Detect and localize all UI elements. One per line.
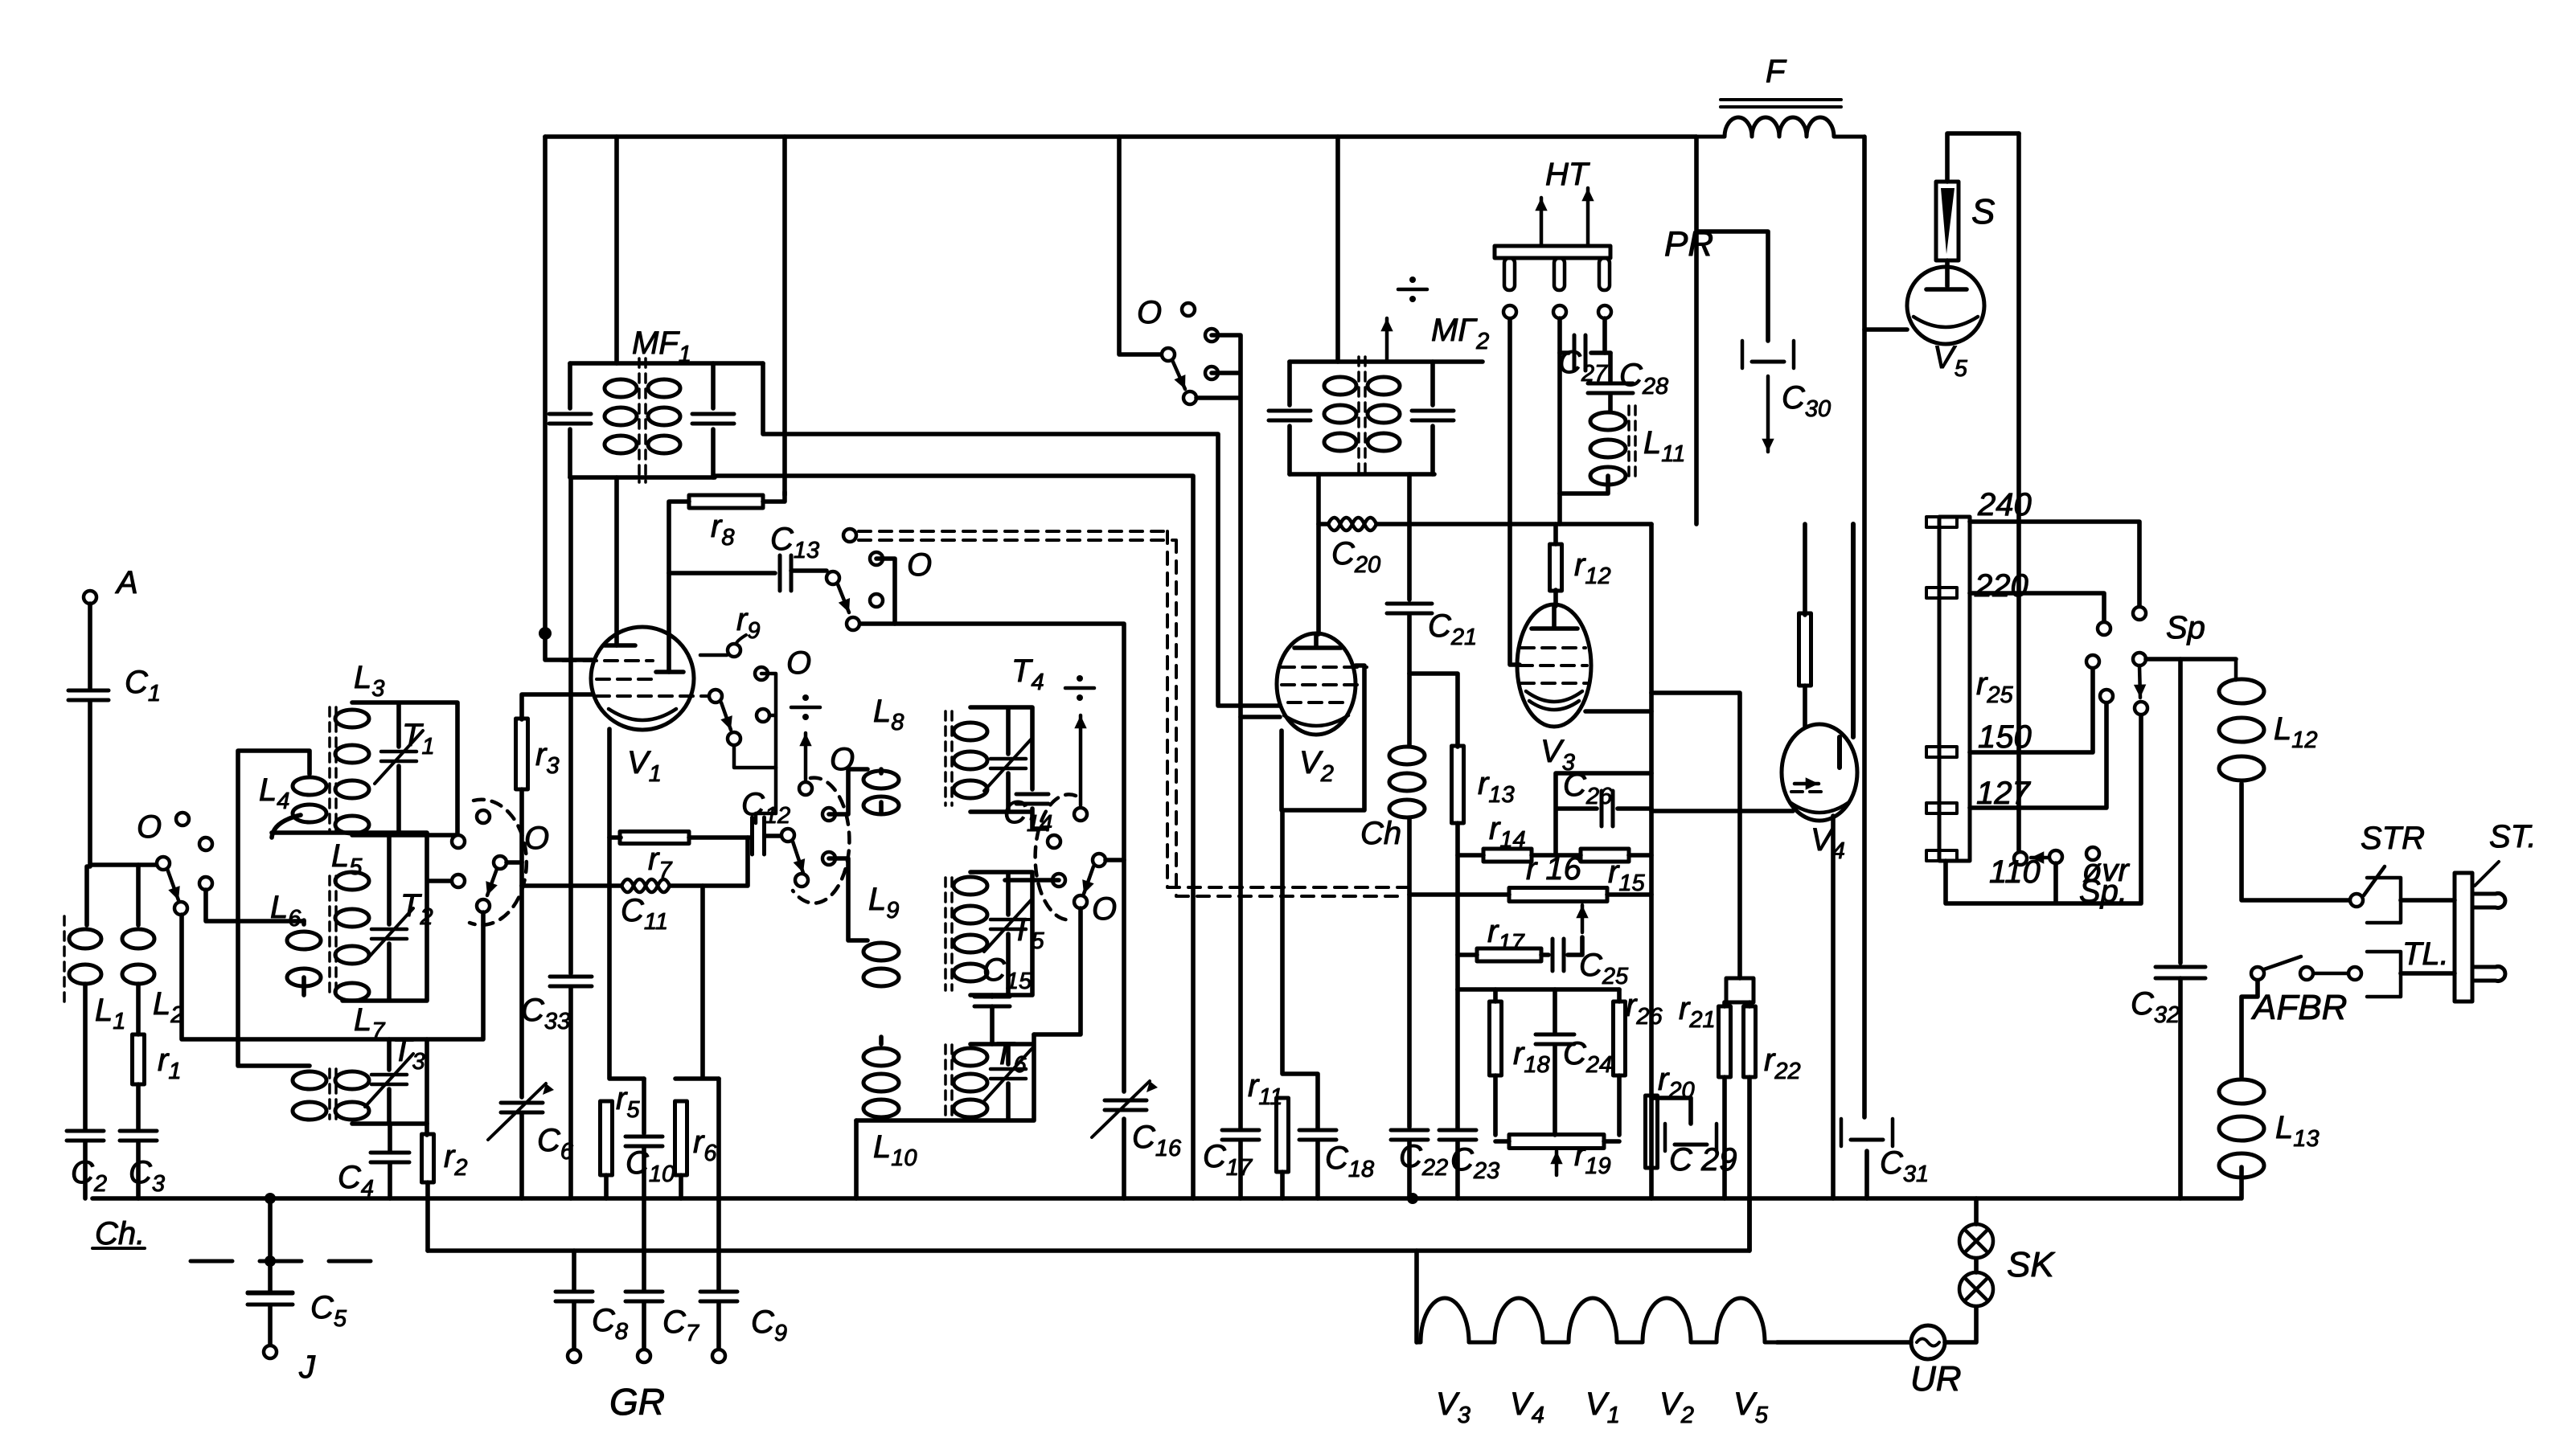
svg-text:STR: STR	[2361, 821, 2425, 856]
trimmer T2	[371, 928, 407, 932]
resistor r26	[1614, 1001, 1626, 1075]
grid cap r9 terminal	[728, 644, 740, 657]
tube V3 cathode arc	[1526, 691, 1582, 710]
transformer core L8	[944, 711, 947, 805]
wire tap 220	[1970, 593, 2104, 622]
resistor r7	[620, 832, 689, 844]
wire C32 line	[2178, 659, 2183, 963]
capacitor C26 box	[1556, 773, 1651, 855]
svg-text:UR: UR	[1910, 1359, 1962, 1399]
capacitor C25	[1551, 939, 1555, 971]
wire V3 cathode to r21 rail	[1585, 693, 1740, 978]
terminal ovr spare	[2086, 847, 2099, 860]
wire V3 grid from PR	[1510, 318, 1520, 665]
wire r8 right to screen line	[763, 492, 785, 502]
wire C21 to choke node	[1407, 616, 1412, 674]
fuse S	[1936, 182, 1959, 260]
wire MF1 left to C33	[568, 477, 573, 973]
svg-text:S: S	[1971, 192, 1995, 231]
transformer core L9	[944, 878, 947, 990]
transformer F lamination lines	[1721, 100, 1841, 107]
chassis dashed line	[191, 1260, 376, 1264]
wire left vertical from top bus to V1 grid	[545, 137, 593, 660]
wire C9 line	[716, 1079, 721, 1289]
ballast UR	[1911, 1325, 1945, 1359]
resistor r16 wire	[1607, 892, 1651, 897]
wire TL to plug	[2401, 971, 2455, 976]
svg-text:150: 150	[1978, 719, 2032, 755]
wire switch left contact	[1005, 878, 1059, 883]
inductor L9 secondary	[954, 877, 987, 895]
transformer core T3	[328, 1069, 331, 1119]
wire L10 to ground	[856, 1037, 881, 1198]
wire V4 grid stub	[1651, 809, 1793, 813]
resistor r7 wire	[609, 835, 752, 840]
wire MF1 primary feed	[614, 137, 619, 363]
svg-text:240: 240	[1977, 487, 2032, 522]
svg-text:127: 127	[1976, 776, 2031, 811]
svg-text:C 29: C 29	[1669, 1142, 1737, 1178]
wire heater feed	[1414, 1251, 1419, 1342]
capacitor C26	[1600, 791, 1604, 826]
switch TL bracket	[2367, 952, 2401, 997]
inductor L13	[2219, 1079, 2264, 1104]
wire C5 to J	[268, 1305, 273, 1346]
wire C13 switch bracket	[876, 559, 895, 624]
resistor r23	[1799, 613, 1811, 686]
capacitor C20 coupling squiggle	[1328, 518, 1376, 530]
inductor MF1 secondary coil	[648, 379, 680, 397]
tube V1 anode bar	[605, 643, 635, 648]
wire L7 tap from antenna switch	[182, 912, 483, 1039]
capacitor C9	[700, 1290, 737, 1294]
wire osc switch bracket to V2	[1196, 335, 1280, 717]
wire L11 bottom	[1560, 476, 1608, 494]
wire tap 240	[1970, 522, 2139, 607]
svg-text:O: O	[1092, 891, 1117, 927]
terminal AVC line	[843, 529, 856, 542]
tube V2 envelope	[1277, 633, 1356, 735]
inductor L8 secondary	[954, 723, 987, 740]
resistor r12 wire	[1553, 524, 1558, 606]
capacitor C1	[68, 689, 109, 693]
capacitor C4	[371, 1151, 409, 1155]
wire switch pivot to osc line	[1105, 858, 1124, 862]
wire S to V5	[1947, 133, 2019, 286]
resistor r5	[601, 1101, 613, 1175]
arrow HT right	[1586, 188, 1590, 246]
tube V1 grids	[563, 659, 653, 662]
tap 240	[1926, 517, 1957, 527]
wire r5 to ground	[604, 1175, 609, 1198]
wire heater to UR	[1777, 1340, 1911, 1345]
wire C5 from bus	[268, 1198, 273, 1291]
terminal GR C8	[568, 1350, 580, 1362]
wire C3 to ground bus	[136, 1141, 141, 1198]
svg-text:Sp: Sp	[2166, 610, 2205, 645]
wire switch arm to L6	[206, 890, 304, 921]
wire AVC dashed bus	[859, 531, 1409, 887]
plug ST prong top	[2472, 894, 2505, 908]
wire L13 to ground bus	[2239, 1167, 2244, 1198]
svg-text:J: J	[298, 1350, 316, 1385]
wire C7 to terminal	[642, 1303, 646, 1350]
tuned box L8-T4	[970, 707, 1047, 829]
inductor L4	[293, 777, 326, 795]
wire C2 to ground bus	[83, 1141, 88, 1198]
tube V4 anode bar	[1840, 524, 1853, 768]
wire r3 down to C11 node	[519, 789, 524, 886]
capacitor MF2 secondary	[1430, 362, 1435, 474]
resistor r18 wire	[1493, 989, 1498, 1135]
lamp SK lower	[1959, 1272, 1993, 1306]
capacitor C22	[1391, 1128, 1428, 1133]
switch O band selector right	[1048, 835, 1060, 848]
ground arrow band switch	[1079, 715, 1083, 805]
wire L2 top	[136, 865, 141, 925]
wire C17 to ground	[1238, 1141, 1243, 1198]
wire C11 line	[522, 838, 748, 886]
svg-text:F: F	[1766, 54, 1787, 89]
divide symbol MF2	[1398, 288, 1427, 292]
switch O antenna selector	[157, 857, 170, 870]
wire C33 to ground	[568, 988, 573, 1198]
capacitor MF2 primary	[1287, 362, 1292, 474]
inductor L3	[335, 710, 369, 727]
inductor L5	[335, 872, 369, 890]
svg-text:Sp.: Sp.	[2079, 874, 2127, 909]
wire MF1 primary to V1 anode	[614, 477, 619, 645]
wire V1 cathode down to r5 bracket	[609, 729, 644, 1079]
ground arrow above switch	[804, 733, 808, 780]
tuned box L9-T5	[970, 872, 1032, 995]
tube V3 envelope	[1517, 604, 1591, 727]
svg-text:O: O	[907, 547, 932, 583]
plug ST prong bottom	[2472, 967, 2505, 981]
inductor F primary coil	[1696, 117, 1864, 137]
wire A to C1	[88, 604, 92, 688]
arrow r16 wiper	[1581, 905, 1585, 932]
resistor r20	[1646, 1096, 1658, 1168]
tube V5 envelope	[1907, 267, 1984, 344]
terminal A antenna	[84, 591, 96, 604]
transformer core MF2	[1357, 357, 1360, 479]
switch O oscillator injection	[781, 829, 794, 842]
transformer MF1 box	[570, 363, 763, 477]
tap 150	[1926, 747, 1957, 757]
wire L2 to r1	[136, 984, 141, 1034]
tube V4 envelope	[1782, 724, 1857, 821]
terminal PR mid	[1553, 305, 1566, 318]
wire V4 cathode to ground	[1831, 816, 1836, 1198]
svg-text:PR: PR	[1664, 224, 1713, 264]
tap bottom	[1926, 850, 1957, 861]
wire screen feed to r8	[782, 137, 787, 495]
wire r13 top link	[1412, 674, 1458, 747]
trimmer T5	[991, 918, 1026, 922]
resistor r21	[1719, 1006, 1731, 1077]
divide symbol band switch	[1065, 686, 1094, 690]
arrow HT left	[1540, 198, 1544, 246]
wire r11 to ground	[1280, 1172, 1285, 1198]
svg-text:SK: SK	[2007, 1245, 2055, 1284]
switch Sp arm	[2133, 653, 2146, 666]
wire MF2 primary feed	[1335, 137, 1340, 362]
wire C12 to switch	[765, 834, 781, 838]
wire V5 to selector rail	[2016, 133, 2021, 850]
wire C9 to terminal	[716, 1303, 721, 1350]
terminal GR C7	[638, 1350, 650, 1362]
wire between lamps	[1974, 1259, 1979, 1272]
capacitor C27 wire	[1560, 350, 1610, 355]
tube V5 anode bar	[1926, 287, 1967, 292]
wire C27 to C28	[1608, 353, 1613, 381]
wire bias bracket	[1458, 987, 1619, 992]
svg-text:Ch.: Ch.	[95, 1216, 145, 1251]
resistor r14	[1483, 849, 1532, 862]
capacitor C2	[67, 1129, 104, 1133]
capacitor C5	[248, 1292, 293, 1296]
switch O wave band selector left	[477, 810, 490, 823]
transformer core T1	[328, 707, 331, 832]
wire MF2 to V2 plate	[1316, 474, 1321, 634]
svg-text:Ch: Ch	[1360, 816, 1401, 851]
variable capacitor C16	[1105, 1099, 1146, 1103]
divide symbol above switch	[791, 706, 820, 710]
tube V4 cathode arc	[1790, 802, 1849, 813]
svg-text:A: A	[115, 565, 138, 600]
tube V2 grids	[1282, 666, 1367, 669]
wire C30 rail	[1694, 137, 1699, 524]
capacitor C15 wire	[990, 995, 995, 1044]
tube V4 grid	[1791, 790, 1827, 793]
trimmer T4	[991, 757, 1026, 761]
inductor L7 secondary	[335, 1071, 369, 1089]
switch grid pivot	[709, 690, 722, 702]
wire lamp to ground bus	[1974, 1198, 1979, 1224]
variable capacitor C6	[501, 1101, 543, 1105]
capacitor C29	[1665, 1124, 1717, 1151]
wire PR mid down to anode rail	[1557, 318, 1562, 524]
wire r1 to C3	[136, 1084, 141, 1129]
capacitor C30 wire	[1696, 231, 1768, 341]
capacitor C14	[1016, 793, 1048, 797]
wire C31 to ground	[1864, 1151, 1869, 1198]
svg-text:O: O	[1137, 295, 1162, 330]
resistor r16 potentiometer	[1509, 888, 1607, 902]
capacitor C31	[1841, 1119, 1893, 1146]
wire C10 through buses to C7	[642, 1147, 646, 1289]
inductor Ch choke	[1407, 674, 1412, 745]
wire tap 150	[1970, 668, 2093, 752]
capacitor C30	[1742, 341, 1794, 368]
capacitor C29 wire	[1651, 1098, 1691, 1124]
capacitor C23 wire	[1455, 989, 1460, 1128]
inductor L12	[2219, 679, 2264, 703]
svg-text:GR: GR	[609, 1381, 665, 1423]
svg-text:O: O	[524, 821, 549, 856]
transformer core MF1	[638, 358, 641, 482]
resistor r2	[422, 1134, 434, 1182]
resistor r13	[1452, 746, 1464, 823]
plug PR bar	[1495, 246, 1610, 258]
lamp SK upper	[1959, 1224, 1993, 1258]
arrow C30 discharge	[1766, 376, 1770, 452]
capacitor C24	[1536, 1033, 1574, 1037]
resistor r11	[1277, 1098, 1289, 1172]
wire L1 top	[87, 866, 90, 925]
wire r6 to ground	[679, 1175, 683, 1198]
resistor r1	[133, 1034, 145, 1084]
wire AFBR to L13	[2242, 981, 2258, 1077]
wire choke to C22	[1407, 818, 1412, 1127]
tube V1 cathode arc	[609, 709, 676, 720]
wire V5 feed from F rail	[1864, 327, 1907, 332]
tuned circuit box L5-T2	[272, 833, 452, 1001]
tube V3 grids	[1521, 646, 1585, 649]
svg-text:O: O	[137, 809, 162, 845]
resistor r25 tapped body	[1939, 517, 1970, 861]
transformer MF2 box	[1290, 362, 1483, 474]
svg-text:r 16: r 16	[1526, 851, 1582, 887]
wire heater return bus	[428, 1198, 1749, 1251]
wire oscillator line through C16 to ground	[853, 624, 1124, 1198]
svg-text:O: O	[830, 742, 855, 777]
svg-text:AFBR: AFBR	[2250, 988, 2347, 1027]
terminal PR right	[1598, 305, 1611, 318]
capacitor C13	[778, 555, 782, 591]
terminal 110	[2014, 852, 2027, 865]
tube V2 cathode arc	[1284, 715, 1348, 726]
wire C18 to ground	[1315, 1141, 1320, 1198]
capacitor C17	[1222, 1128, 1259, 1133]
switch arm 110	[2049, 850, 2062, 863]
capacitor MF1 secondary	[711, 363, 716, 477]
wire r13 to r14 line and r17	[1455, 823, 1460, 989]
wire tap 127	[1970, 702, 2106, 808]
inductor L10 primary	[863, 1048, 899, 1066]
resistor r21 r22 top box	[1726, 978, 1754, 1002]
capacitor C12	[750, 817, 754, 854]
ground arrow MF2	[1385, 318, 1389, 360]
inductor MF2 primary coil	[1324, 377, 1356, 395]
wire anode line to r23	[1803, 524, 1807, 615]
wire oscillator switch feed	[1119, 137, 1162, 354]
wire C6 to ground	[519, 1113, 524, 1198]
capacitor MF1 primary	[568, 363, 572, 477]
svg-text:220: 220	[1974, 568, 2028, 604]
svg-text:HT: HT	[1545, 157, 1590, 192]
wire L7 to C4	[388, 1124, 392, 1151]
wire C13 to switch	[791, 568, 827, 573]
inductor L11	[1590, 412, 1626, 430]
inductor L2	[122, 929, 154, 948]
svg-text:110: 110	[1989, 854, 2041, 890]
capacitor C10	[626, 1135, 662, 1139]
node junction dot at V1 grid feed	[539, 627, 552, 640]
svg-text:ST.: ST.	[2489, 819, 2537, 854]
switch O oscillator top	[1182, 303, 1195, 316]
label Ch underline	[92, 1247, 145, 1250]
wire C22 to ground junction	[1407, 1141, 1412, 1198]
arrow r19 wiper	[1555, 1151, 1559, 1175]
switch STR	[2350, 894, 2363, 907]
plug ST body	[2455, 873, 2472, 1001]
wire L6 bottom stub	[301, 920, 306, 995]
tuned circuit box L3-T1	[352, 702, 457, 835]
capacitor C8	[556, 1290, 593, 1294]
inductor L9 primary	[863, 943, 899, 961]
wire V2 cathode loop	[1282, 666, 1364, 810]
capacitor C24 wire	[1553, 989, 1557, 1135]
plug PR prongs	[1504, 258, 1515, 290]
wire C28 to L11	[1608, 395, 1613, 411]
inductor L8 primary	[863, 771, 899, 788]
inductor L6	[287, 932, 321, 949]
inductor L1	[69, 929, 101, 948]
tap 127	[1926, 803, 1957, 813]
resistor r26 wire	[1617, 989, 1622, 1135]
capacitor C21	[1387, 602, 1432, 606]
tuned box L10-T6	[856, 1034, 1034, 1120]
wire MF1 secondary top to V2 grid	[763, 363, 1280, 706]
wire r21 to ground	[1722, 1002, 1727, 1198]
wire r6 bracket	[675, 886, 719, 1079]
tube V1 envelope	[591, 627, 694, 730]
wire top HT bus	[545, 134, 1696, 139]
wire main ground bus	[92, 1196, 2240, 1201]
trimmer T6	[991, 1067, 1026, 1071]
wire AVC to r16	[1409, 892, 1509, 897]
wire r23 to V4	[1803, 686, 1807, 727]
tuned circuit box L7-T3	[352, 1039, 427, 1124]
wire C23 to ground	[1455, 1141, 1460, 1198]
wire PR right to C27	[1602, 318, 1607, 353]
transformer core T2	[328, 876, 331, 993]
wire switch to L8 primary	[829, 769, 868, 814]
wire anode rail down to ground	[1649, 524, 1654, 1198]
wire STR to plug	[2401, 898, 2455, 903]
wire selector common	[1946, 715, 2141, 903]
tube V2 anode bar	[1294, 634, 1341, 648]
resistor r19 potentiometer	[1509, 1135, 1604, 1149]
tube V3 anode bar	[1532, 606, 1577, 629]
resistor r15	[1581, 849, 1629, 862]
wire C6 feed	[519, 886, 524, 1097]
transformer core L10	[944, 1045, 947, 1117]
capacitor C28	[1588, 382, 1633, 386]
inductor L10 secondary	[954, 1048, 987, 1066]
wire UR to lamps	[1945, 1307, 1976, 1342]
tap 220	[1926, 588, 1957, 598]
label ST leader	[2475, 862, 2499, 886]
tube V1 screen bar	[656, 670, 683, 674]
terminal GR C9	[712, 1350, 725, 1362]
capacitor C7	[626, 1290, 662, 1294]
wire L4 bottom	[272, 815, 301, 838]
switch O after C13	[827, 571, 839, 584]
trimmer T3	[371, 1073, 407, 1077]
wire C8 to terminal	[572, 1303, 576, 1350]
wire r11 C18 bracket	[1282, 810, 1318, 1128]
inductor MF2 secondary coil	[1368, 377, 1400, 395]
resistor r19 wire	[1495, 1139, 1619, 1144]
inductor L7 primary	[293, 1071, 326, 1089]
wire band switch to r3 line	[507, 860, 522, 865]
resistor r18	[1490, 1001, 1502, 1075]
inductor MF1 primary coil	[605, 379, 637, 397]
capacitor C3	[120, 1129, 157, 1133]
